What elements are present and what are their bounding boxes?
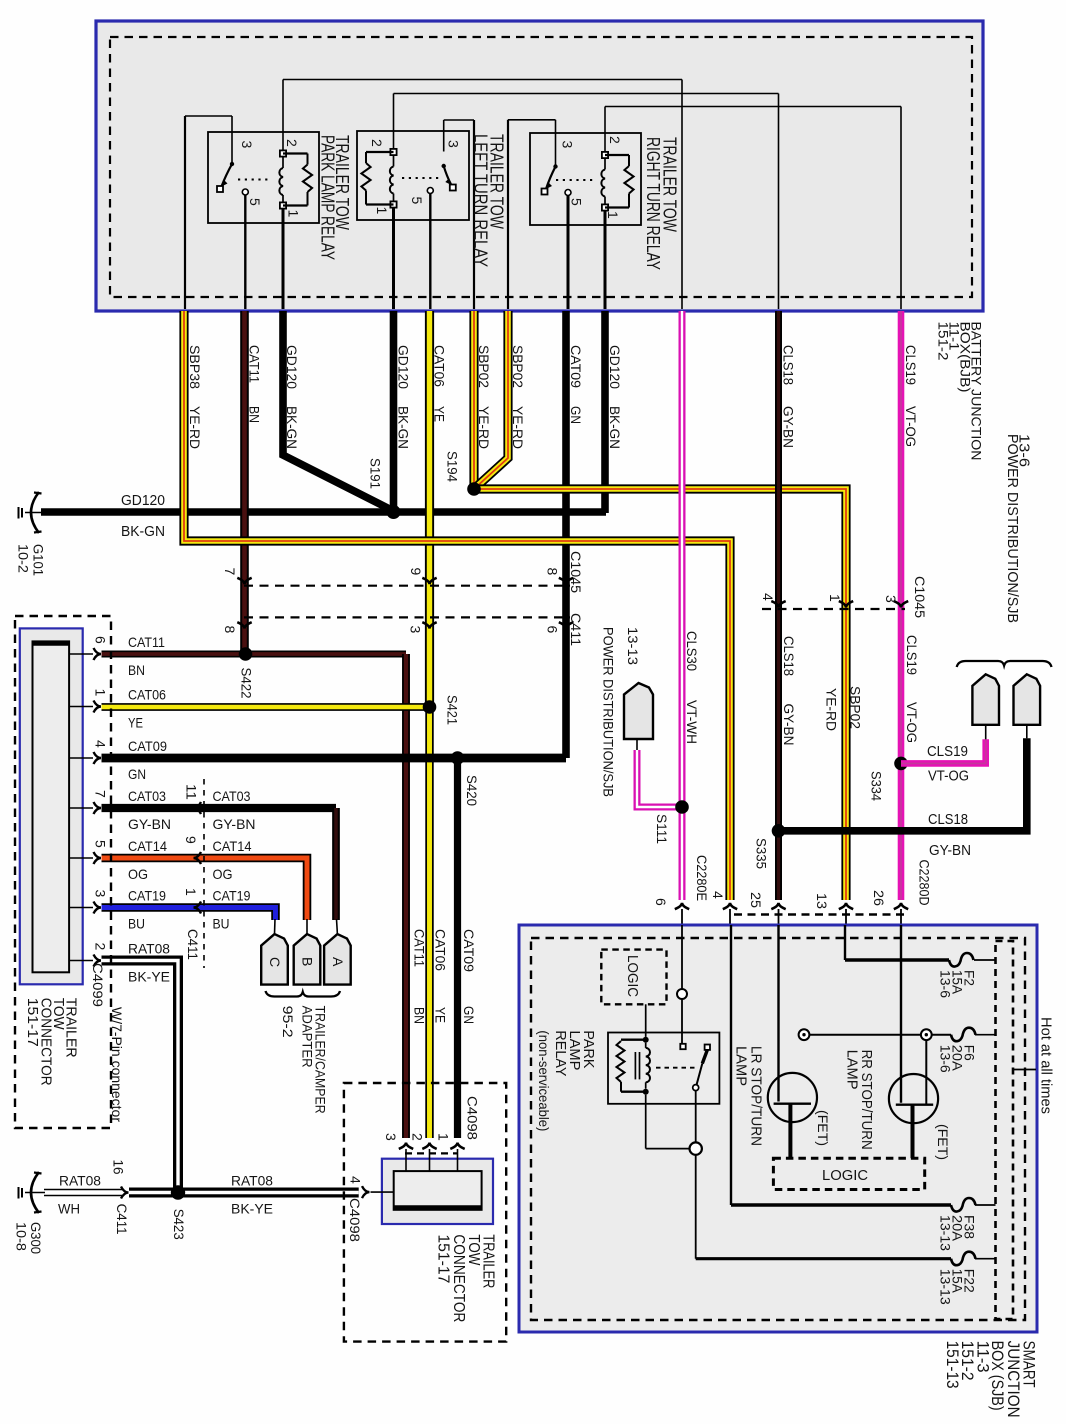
svg-text:6: 6 (93, 636, 109, 644)
svg-text:C: C (267, 957, 283, 967)
svg-text:16: 16 (111, 1160, 127, 1175)
svg-text:13: 13 (814, 893, 830, 909)
svg-text:Hot at all times: Hot at all times (1038, 1017, 1055, 1114)
svg-text:13-13: 13-13 (625, 627, 641, 665)
svg-text:1: 1 (286, 210, 302, 218)
svg-text:4: 4 (710, 891, 726, 899)
svg-text:CLS18: CLS18 (781, 636, 797, 676)
svg-text:CAT06: CAT06 (431, 345, 447, 387)
svg-text:CAT09: CAT09 (461, 929, 477, 972)
svg-text:YE-RD: YE-RD (476, 406, 492, 449)
svg-text:S335: S335 (754, 838, 770, 869)
svg-text:BN: BN (128, 662, 145, 678)
svg-text:CLS30: CLS30 (684, 631, 700, 671)
svg-text:(FET): (FET) (935, 1124, 951, 1160)
svg-text:ADAPTER: ADAPTER (300, 1006, 316, 1068)
svg-text:5: 5 (569, 198, 585, 206)
svg-text:CLS18: CLS18 (780, 345, 796, 385)
svg-text:C2280D: C2280D (917, 860, 933, 906)
svg-text:C411: C411 (568, 613, 584, 646)
svg-text:(non-serviceable): (non-serviceable) (536, 1030, 552, 1131)
svg-text:SBP02: SBP02 (510, 345, 526, 388)
svg-text:C4098: C4098 (347, 1198, 363, 1242)
svg-text:S420: S420 (464, 775, 480, 806)
svg-text:BK-GN: BK-GN (607, 406, 623, 449)
svg-text:2: 2 (284, 139, 300, 147)
svg-text:BK-GN: BK-GN (121, 524, 165, 540)
svg-text:POWER DISTRIBUTION/SJB: POWER DISTRIBUTION/SJB (601, 627, 617, 797)
svg-text:(FET): (FET) (815, 1110, 831, 1146)
svg-text:4: 4 (760, 593, 776, 601)
svg-text:151-13: 151-13 (943, 1341, 962, 1389)
svg-text:3: 3 (93, 890, 109, 898)
svg-text:151-17: 151-17 (434, 1234, 451, 1283)
svg-text:13-13: 13-13 (938, 1269, 954, 1305)
svg-text:SBP38: SBP38 (187, 345, 203, 389)
svg-text:CAT14: CAT14 (128, 838, 167, 854)
svg-text:CAT19: CAT19 (128, 888, 166, 904)
svg-text:4: 4 (348, 1176, 364, 1184)
svg-text:13-6: 13-6 (938, 1045, 954, 1073)
svg-text:GN: GN (461, 1006, 477, 1024)
svg-text:CLS19: CLS19 (903, 345, 919, 385)
svg-text:G101: G101 (31, 544, 47, 576)
svg-text:LEFT TURN RELAY: LEFT TURN RELAY (471, 134, 491, 267)
svg-text:YE: YE (128, 715, 143, 731)
svg-text:BU: BU (213, 916, 230, 932)
svg-text:2: 2 (93, 943, 109, 951)
svg-text:CAT19: CAT19 (213, 888, 251, 904)
svg-text:13-13: 13-13 (938, 1215, 954, 1251)
svg-text:GY-BN: GY-BN (780, 406, 796, 448)
svg-text:GD120: GD120 (607, 345, 623, 389)
svg-text:25: 25 (748, 892, 764, 908)
svg-text:S423: S423 (171, 1209, 187, 1240)
svg-text:3: 3 (239, 141, 255, 149)
svg-text:S422: S422 (239, 668, 255, 699)
svg-text:CAT03: CAT03 (128, 788, 166, 804)
svg-text:GD120: GD120 (121, 493, 165, 509)
svg-text:OG: OG (213, 866, 233, 882)
svg-text:C2280E: C2280E (694, 855, 710, 901)
svg-text:VT-OG: VT-OG (904, 702, 920, 743)
svg-text:A: A (330, 957, 346, 967)
svg-text:4: 4 (93, 740, 109, 748)
svg-text:RAT08: RAT08 (128, 941, 170, 957)
svg-text:RELAY: RELAY (552, 1030, 569, 1076)
svg-text:7: 7 (93, 790, 109, 798)
svg-text:BN: BN (246, 406, 262, 423)
svg-text:C411: C411 (185, 929, 201, 960)
svg-text:S191: S191 (368, 458, 384, 489)
svg-text:W/7-Pin connector: W/7-Pin connector (109, 1007, 125, 1122)
svg-text:BK-YE: BK-YE (231, 1201, 273, 1217)
svg-text:LAMP: LAMP (733, 1046, 750, 1086)
svg-text:GN: GN (568, 406, 584, 424)
svg-text:VT-OG: VT-OG (928, 769, 969, 785)
svg-text:GY-BN: GY-BN (929, 843, 971, 859)
svg-text:CLS19: CLS19 (927, 744, 968, 760)
svg-text:9: 9 (183, 836, 199, 844)
svg-text:BK-GN: BK-GN (395, 406, 411, 449)
svg-text:10-2: 10-2 (16, 544, 32, 573)
svg-text:GY-BN: GY-BN (781, 704, 797, 746)
svg-text:2: 2 (410, 1133, 426, 1141)
svg-text:CAT03: CAT03 (213, 788, 251, 804)
svg-text:YE: YE (433, 1007, 449, 1023)
svg-text:3: 3 (446, 140, 462, 148)
svg-text:CAT14: CAT14 (213, 838, 252, 854)
svg-text:C4099: C4099 (90, 963, 106, 1007)
svg-text:POWER DISTRIBUTION/SJB: POWER DISTRIBUTION/SJB (1004, 434, 1021, 623)
svg-text:1: 1 (183, 888, 199, 896)
svg-text:CAT06: CAT06 (128, 687, 166, 703)
svg-text:S111: S111 (654, 814, 670, 844)
svg-text:1: 1 (605, 211, 621, 219)
svg-text:SBP02: SBP02 (848, 686, 864, 729)
svg-text:CAT09: CAT09 (128, 738, 167, 754)
svg-text:VT-OG: VT-OG (903, 406, 919, 447)
svg-text:1: 1 (374, 207, 390, 215)
svg-text:10-8: 10-8 (14, 1222, 30, 1251)
svg-text:CAT11: CAT11 (246, 345, 262, 383)
svg-text:CAT11: CAT11 (412, 929, 428, 967)
svg-text:CLS19: CLS19 (904, 635, 920, 675)
svg-text:8: 8 (545, 568, 561, 576)
svg-text:S421: S421 (445, 695, 461, 725)
svg-text:RAT08: RAT08 (231, 1173, 273, 1189)
svg-text:5: 5 (93, 840, 109, 848)
svg-text:26: 26 (871, 890, 887, 906)
svg-text:3: 3 (408, 626, 424, 634)
svg-text:YE-RD: YE-RD (187, 406, 203, 449)
svg-text:BU: BU (128, 916, 145, 932)
svg-text:1: 1 (827, 594, 843, 602)
svg-text:S334: S334 (869, 771, 885, 801)
svg-text:WH: WH (58, 1201, 80, 1217)
svg-text:GY-BN: GY-BN (213, 816, 256, 832)
svg-text:6: 6 (545, 626, 561, 634)
svg-text:GD120: GD120 (395, 345, 411, 389)
svg-text:151-2: 151-2 (936, 322, 952, 361)
svg-text:151-17: 151-17 (24, 998, 40, 1047)
svg-text:2: 2 (607, 136, 623, 144)
svg-text:8: 8 (222, 626, 238, 634)
svg-text:1: 1 (93, 689, 109, 697)
svg-text:C411: C411 (114, 1204, 130, 1235)
svg-text:LOGIC: LOGIC (822, 1167, 868, 1184)
svg-text:CONNECTOR: CONNECTOR (450, 1234, 467, 1322)
svg-text:3: 3 (383, 1133, 399, 1141)
svg-text:13-6: 13-6 (938, 970, 954, 998)
svg-text:3: 3 (883, 595, 899, 603)
svg-text:CAT06: CAT06 (433, 929, 449, 971)
svg-text:GD120: GD120 (284, 345, 300, 389)
svg-text:BK-YE: BK-YE (128, 969, 170, 985)
svg-text:C4098: C4098 (465, 1096, 481, 1140)
svg-text:5: 5 (409, 197, 425, 205)
svg-text:PARK LAMP RELAY: PARK LAMP RELAY (318, 135, 338, 260)
svg-text:B: B (300, 957, 316, 966)
svg-text:LAMP: LAMP (844, 1050, 861, 1090)
svg-text:1: 1 (436, 1133, 452, 1141)
svg-text:YE-RD: YE-RD (824, 688, 840, 731)
svg-text:2: 2 (369, 139, 385, 147)
svg-text:3: 3 (560, 141, 576, 149)
svg-text:YE-RD: YE-RD (510, 406, 526, 449)
svg-text:VT-WH: VT-WH (684, 700, 700, 744)
svg-text:S194: S194 (445, 451, 461, 482)
svg-text:C1045: C1045 (912, 576, 928, 618)
svg-text:CLS18: CLS18 (928, 812, 968, 828)
svg-text:LOGIC: LOGIC (624, 955, 641, 997)
svg-text:5: 5 (247, 198, 263, 206)
svg-text:GY-BN: GY-BN (128, 816, 171, 832)
svg-text:9: 9 (408, 568, 424, 576)
svg-text:OG: OG (128, 866, 148, 882)
svg-text:11: 11 (184, 784, 200, 800)
svg-text:YE: YE (431, 406, 447, 422)
svg-text:SBP02: SBP02 (476, 345, 492, 388)
svg-text:C1045: C1045 (568, 551, 584, 593)
svg-text:RIGHT TURN RELAY: RIGHT TURN RELAY (643, 137, 663, 270)
svg-text:CAT09: CAT09 (568, 345, 584, 388)
svg-text:GN: GN (128, 766, 146, 782)
svg-text:RAT08: RAT08 (59, 1173, 101, 1189)
svg-text:CAT11: CAT11 (128, 634, 165, 650)
svg-text:95-2: 95-2 (280, 1006, 296, 1038)
svg-text:6: 6 (653, 898, 669, 906)
svg-text:BK-GN: BK-GN (284, 406, 300, 449)
svg-text:BN: BN (412, 1007, 428, 1024)
svg-text:7: 7 (222, 568, 238, 576)
